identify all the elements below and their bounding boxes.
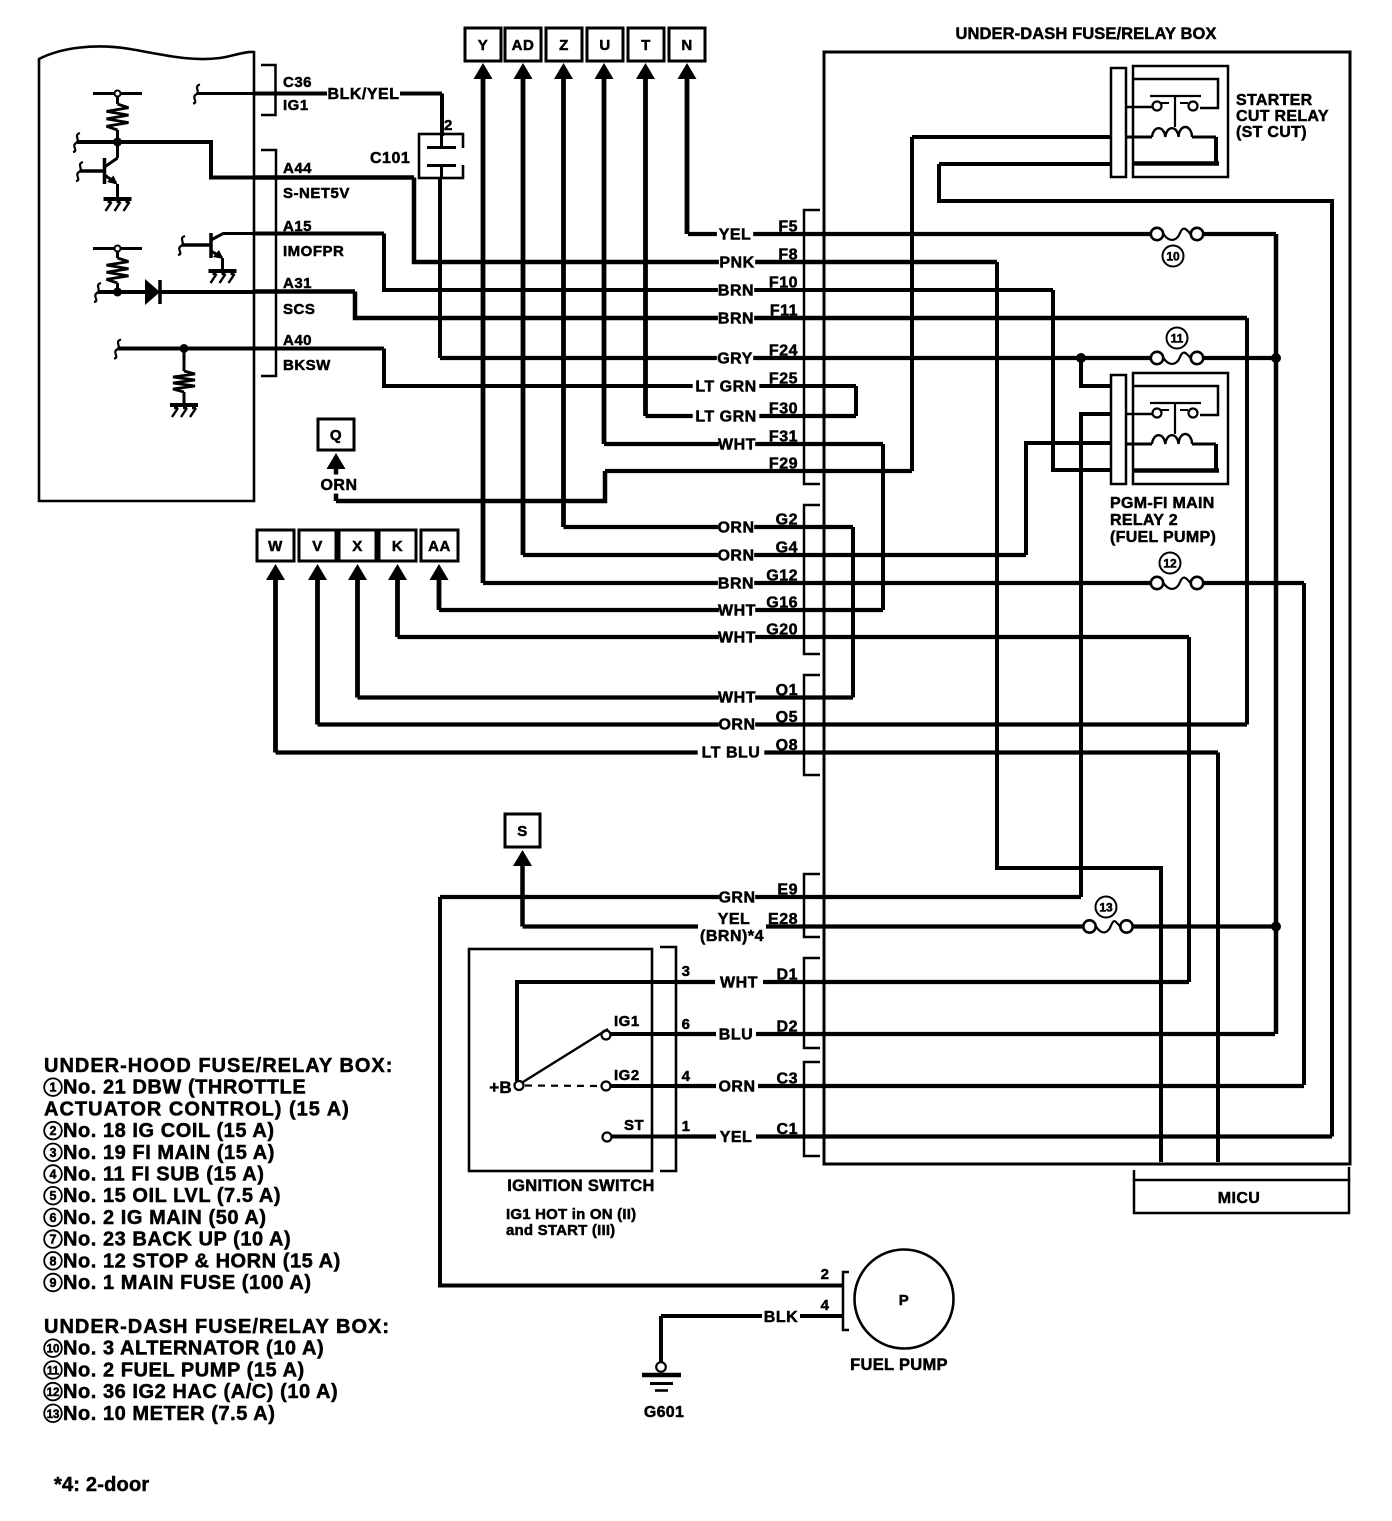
svg-text:UNDER-HOOD FUSE/RELAY BOX:: UNDER-HOOD FUSE/RELAY BOX: bbox=[44, 1055, 393, 1077]
svg-text:No. 36 IG2 HAC (A/C) (10 A): No. 36 IG2 HAC (A/C) (10 A) bbox=[63, 1381, 338, 1403]
wire BLK fuel pump pin 4 to ground bbox=[800, 1314, 843, 1318]
wire riser F29 to relay 1 coil bbox=[910, 137, 914, 471]
wire GRN / E9 row from relay 2 contact to fuel pump feed bbox=[440, 895, 1081, 899]
wire LT GRN / F25 row (from A40/BKSW) bbox=[254, 347, 384, 351]
junction dot fuse 11 tap bbox=[1076, 353, 1086, 363]
wire label ORN (G4) bbox=[718, 545, 754, 564]
svg-text:(ST CUT): (ST CUT) bbox=[1236, 124, 1307, 141]
svg-text:ORN: ORN bbox=[718, 717, 755, 734]
svg-text:ORN: ORN bbox=[717, 548, 754, 565]
fuse 10 (No.3 ALTERNATOR) bbox=[1151, 228, 1163, 240]
svg-text:FUEL PUMP: FUEL PUMP bbox=[850, 1356, 948, 1374]
svg-text:6: 6 bbox=[682, 1016, 691, 1033]
ground (circuit 1 emitter) bbox=[104, 197, 132, 201]
svg-text:ORN: ORN bbox=[718, 1079, 755, 1096]
svg-text:STARTER: STARTER bbox=[1236, 92, 1313, 109]
ground G601 symbol bbox=[642, 1373, 681, 1378]
svg-text:12: 12 bbox=[1163, 557, 1177, 571]
wire F10 run to relay 2 bottom bus bbox=[1053, 290, 1110, 470]
svg-text:No. 10 METER (7.5 A): No. 10 METER (7.5 A) bbox=[63, 1403, 276, 1425]
arrow into connector T bbox=[636, 63, 655, 79]
wire riser to connector U bbox=[602, 75, 607, 444]
junction dot bus/fuse 11 bbox=[1271, 353, 1281, 363]
wire riser to connector T bbox=[643, 75, 648, 416]
svg-text:No. 2 FUEL PUMP (15 A): No. 2 FUEL PUMP (15 A) bbox=[63, 1359, 305, 1381]
svg-text:G16: G16 bbox=[766, 595, 798, 612]
wire WHT / D1 row (ignition +B feed) bbox=[676, 980, 715, 984]
svg-text:No. 2 IG MAIN (50 A): No. 2 IG MAIN (50 A) bbox=[63, 1207, 267, 1229]
svg-text:7: 7 bbox=[50, 1233, 57, 1247]
connector box AA bbox=[421, 530, 458, 561]
svg-text:ORN: ORN bbox=[320, 477, 357, 494]
wire BRN / F11 row (from A31/SCS) bbox=[254, 289, 355, 294]
svg-text:GRN: GRN bbox=[718, 890, 755, 907]
svg-text:12: 12 bbox=[47, 1387, 60, 1399]
jumper G2-Q1 inside box bbox=[851, 527, 855, 698]
svg-text:PGM-FI MAIN: PGM-FI MAIN bbox=[1110, 495, 1215, 512]
svg-text:F31: F31 bbox=[769, 429, 798, 446]
svg-text:S: S bbox=[517, 823, 528, 840]
connector box S bbox=[505, 814, 540, 847]
svg-text:AD: AD bbox=[512, 37, 535, 54]
arrow into connector AA bbox=[430, 564, 449, 580]
node junction dot (circuit 2) bbox=[113, 288, 122, 297]
svg-text:F25: F25 bbox=[769, 371, 798, 388]
wire riser to connector Y bbox=[481, 75, 486, 583]
svg-text:N: N bbox=[681, 37, 692, 54]
wire ORN / C3 row (to IG2) bbox=[676, 1084, 716, 1088]
wire label LT GRN (F30) bbox=[693, 406, 760, 425]
wire label WHT (F31) bbox=[719, 434, 755, 453]
list item 4 bbox=[44, 1165, 62, 1183]
wire BRN / G12 row (from Y) into fuse 12 bbox=[483, 581, 1150, 585]
svg-text:X: X bbox=[352, 538, 363, 555]
svg-text:AA: AA bbox=[428, 538, 451, 555]
svg-text:IG1: IG1 bbox=[614, 1013, 640, 1030]
ground (circuit 2 emitter) bbox=[209, 269, 237, 273]
fuse 13 (No.10 METER) bbox=[1083, 920, 1095, 932]
connector box AD (to another sheet) bbox=[505, 28, 541, 61]
ECM internal terminal circle (circuit 1) bbox=[115, 91, 121, 97]
PGM-FI main relay 2 (fuel pump) bbox=[1111, 375, 1126, 484]
svg-text:C36: C36 bbox=[283, 74, 312, 91]
svg-text:No. 21 DBW (THROTTLE: No. 21 DBW (THROTTLE bbox=[63, 1077, 306, 1099]
list item 1 bbox=[44, 1078, 62, 1096]
wire WHT / G20 row (from K) to D1 bbox=[398, 635, 1190, 639]
wire riser G20 to D1 row bbox=[1187, 637, 1191, 982]
jumper riser Q5-F11 bbox=[1245, 318, 1249, 725]
ignition switch lever (+B to IG1) bbox=[523, 1029, 608, 1082]
arrow into connector U bbox=[595, 63, 614, 79]
svg-text:IG2: IG2 bbox=[614, 1067, 640, 1084]
svg-text:G12: G12 bbox=[766, 568, 798, 585]
wire label BRN (G12) bbox=[718, 573, 754, 592]
svg-text:F29: F29 bbox=[769, 456, 798, 473]
connector box Q bbox=[318, 419, 354, 450]
wire label BRN (F10) bbox=[718, 280, 754, 299]
node junction dot (circuit 1) bbox=[113, 138, 122, 147]
wire WHT / Q1 row (from X) bbox=[358, 695, 854, 699]
svg-text:No. 18 IG COIL (15 A): No. 18 IG COIL (15 A) bbox=[63, 1120, 275, 1142]
wire label LT GRN (F25) bbox=[693, 376, 760, 395]
wire F29 row to starter cut relay coil bbox=[605, 469, 912, 473]
wire riser to connector V bbox=[315, 576, 320, 725]
wire label PNK (F8) bbox=[719, 252, 755, 271]
svg-text:1: 1 bbox=[50, 1081, 57, 1095]
svg-text:K: K bbox=[392, 538, 403, 555]
wire starter relay bus to C1 bbox=[939, 164, 1332, 1137]
svg-text:E9: E9 bbox=[777, 882, 798, 899]
svg-text:13: 13 bbox=[47, 1409, 60, 1421]
svg-text:ST: ST bbox=[624, 1117, 644, 1134]
arrow into connector V bbox=[308, 564, 327, 580]
list item 13 bbox=[44, 1405, 62, 1423]
fuel pump connector bracket bbox=[843, 1272, 849, 1330]
svg-text:PNK: PNK bbox=[719, 255, 754, 272]
connector C101 (inline, pin 2) bbox=[419, 134, 463, 178]
wire YEL (BRN)*4 / E28 row into fuse 13 bbox=[523, 924, 699, 928]
connector bracket E (fuse box) bbox=[804, 874, 820, 937]
wire label BRN (F11) bbox=[718, 308, 754, 327]
wire E9 down-run to fuel pump pin 2 bbox=[440, 897, 843, 1286]
arrow into connector N bbox=[678, 63, 697, 79]
svg-text:6: 6 bbox=[50, 1211, 57, 1225]
svg-text:G2: G2 bbox=[776, 512, 798, 529]
svg-text:BLU: BLU bbox=[719, 1027, 753, 1044]
svg-text:WHT: WHT bbox=[718, 630, 756, 647]
svg-text:BLK/YEL: BLK/YEL bbox=[328, 86, 400, 103]
svg-text:W: W bbox=[268, 538, 283, 555]
list item 12 bbox=[44, 1383, 62, 1401]
connector bracket C (fuse box) bbox=[804, 1062, 820, 1156]
connector box X bbox=[339, 530, 376, 561]
ground (circuit 3) bbox=[170, 403, 198, 407]
svg-text:BRN: BRN bbox=[718, 576, 754, 593]
wire F8 run to MICU (PNK branch) bbox=[997, 262, 1161, 1162]
wire BRN / F10 row (from A15/IMOFPR) bbox=[254, 232, 384, 236]
list item 8 bbox=[44, 1252, 62, 1270]
svg-text:Q5: Q5 bbox=[776, 709, 798, 726]
wire label ORN (Q) bbox=[321, 475, 357, 494]
wire riser to connector W bbox=[273, 576, 278, 753]
svg-text:WHT: WHT bbox=[718, 690, 756, 707]
svg-text:BRN: BRN bbox=[718, 283, 754, 300]
svg-text:YEL: YEL bbox=[718, 911, 751, 928]
svg-text:11: 11 bbox=[1171, 332, 1184, 346]
IG2 terminal bbox=[602, 1082, 611, 1091]
ECM/PCM module box (torn-edge outline) bbox=[39, 46, 254, 501]
svg-text:4: 4 bbox=[682, 1068, 691, 1085]
svg-text:No. 3 ALTERNATOR (10 A): No. 3 ALTERNATOR (10 A) bbox=[63, 1338, 324, 1360]
connector bracket G (fuse box) bbox=[804, 505, 820, 654]
wire label WHT (Q1) bbox=[719, 687, 755, 706]
starter cut relay (ST CUT) bbox=[1111, 68, 1126, 177]
svg-text:A40: A40 bbox=[283, 332, 312, 349]
svg-text:1: 1 bbox=[682, 1118, 691, 1135]
connector box T (to another sheet) bbox=[628, 28, 664, 61]
svg-text:SCS: SCS bbox=[283, 301, 315, 318]
svg-text:ACTUATOR CONTROL) (15 A): ACTUATOR CONTROL) (15 A) bbox=[44, 1098, 350, 1120]
wire label YEL (F5) bbox=[717, 224, 753, 243]
arrow into connector Y bbox=[474, 63, 493, 79]
ground G601 terminal circle bbox=[656, 1362, 666, 1372]
svg-text:F10: F10 bbox=[769, 275, 798, 292]
IGNITION SWITCH box bbox=[469, 949, 652, 1171]
resistor R-b (ECM, circuit 2) bbox=[116, 252, 119, 259]
connector box K bbox=[379, 530, 416, 561]
svg-text:GRY: GRY bbox=[717, 351, 753, 368]
wire riser to connector AA bbox=[437, 576, 442, 610]
wire relay 2 contact drop to E9 bbox=[1081, 414, 1112, 897]
svg-text:A44: A44 bbox=[283, 160, 312, 177]
ST terminal bbox=[603, 1133, 612, 1142]
svg-text:13: 13 bbox=[1099, 901, 1113, 915]
fuse 12 (No.36 IG2 HAC) bbox=[1151, 577, 1163, 589]
svg-text:LT GRN: LT GRN bbox=[695, 409, 756, 426]
connector box Y (to another sheet) bbox=[465, 28, 501, 61]
jumper F25-F30 inside box bbox=[854, 386, 858, 416]
transistor Q-a (ECM driver, circuit 1) bbox=[116, 142, 119, 158]
arrow into connector X bbox=[348, 564, 367, 580]
list item 6 bbox=[44, 1209, 62, 1227]
svg-text:IGNITION SWITCH: IGNITION SWITCH bbox=[507, 1177, 655, 1195]
MICU box bbox=[1133, 1170, 1136, 1180]
wire riser to connector N bbox=[685, 75, 690, 234]
wire BLK/YEL from C36 to connector C101 bbox=[254, 92, 327, 96]
wire riser G4 to relay 2 coil bbox=[1026, 443, 1112, 555]
ignition +B feed wire bbox=[517, 982, 676, 1081]
svg-text:IG1: IG1 bbox=[283, 97, 309, 114]
connector bracket F (fuse box) bbox=[804, 210, 820, 484]
resistor R-a (ECM pull-up, circuit 1) bbox=[116, 97, 119, 105]
svg-text:F11: F11 bbox=[770, 303, 798, 320]
svg-text:G4: G4 bbox=[776, 540, 798, 557]
transistor Q-b (ECM, circuit 2) with collector to pin A15 bbox=[209, 233, 213, 258]
wire label ORN (Q5) bbox=[719, 714, 755, 733]
wire label ORN (G2) bbox=[718, 517, 754, 536]
connector box W bbox=[257, 530, 294, 561]
ECM internal terminal stub (circuit 2) bbox=[93, 247, 142, 250]
list item 2 bbox=[44, 1122, 62, 1140]
junction dot bus/fuse 13 bbox=[1271, 922, 1281, 932]
list item 11 bbox=[44, 1361, 62, 1379]
svg-text:RELAY 2: RELAY 2 bbox=[1110, 512, 1178, 529]
list item 9 bbox=[44, 1274, 62, 1292]
wire riser to connector K bbox=[395, 576, 400, 637]
svg-text:BRN: BRN bbox=[718, 311, 754, 328]
wire riser to connector Z bbox=[561, 75, 566, 527]
connector bracket C36/IG1 bbox=[261, 65, 276, 115]
svg-text:+B: +B bbox=[489, 1078, 512, 1097]
connector box V bbox=[299, 530, 336, 561]
wire BLU / D2 row (to IG1) bbox=[676, 1032, 716, 1036]
svg-text:2: 2 bbox=[444, 117, 453, 134]
wire ORN / G2 row (from Z) bbox=[564, 525, 854, 529]
list item 10 bbox=[44, 1339, 62, 1357]
svg-text:and START (III): and START (III) bbox=[506, 1222, 615, 1239]
svg-text:F24: F24 bbox=[769, 343, 798, 360]
svg-text:F8: F8 bbox=[778, 247, 798, 264]
wire YEL / C1 row (to ST) from starter cut relay bbox=[676, 1134, 716, 1138]
svg-text:2: 2 bbox=[821, 1266, 830, 1283]
svg-text:10: 10 bbox=[47, 1344, 60, 1356]
svg-text:C3: C3 bbox=[777, 1071, 798, 1088]
list item 5 bbox=[44, 1187, 62, 1205]
svg-text:G601: G601 bbox=[644, 1404, 684, 1421]
svg-text:Q1: Q1 bbox=[776, 682, 798, 699]
svg-text:No. 1 MAIN FUSE (100 A): No. 1 MAIN FUSE (100 A) bbox=[63, 1272, 312, 1294]
svg-text:D2: D2 bbox=[777, 1019, 798, 1036]
svg-text:MICU: MICU bbox=[1218, 1190, 1260, 1207]
svg-text:5: 5 bbox=[50, 1189, 57, 1203]
wire A44 internal run to pin A44 bbox=[77, 142, 254, 178]
wire ORN / G4 row (from AD) to relay 2 coil bbox=[523, 553, 1026, 557]
svg-text:LT BLU: LT BLU bbox=[702, 745, 761, 762]
svg-text:(FUEL PUMP): (FUEL PUMP) bbox=[1110, 529, 1216, 546]
svg-text:9: 9 bbox=[50, 1276, 57, 1290]
wire label GRN (E9) bbox=[719, 887, 755, 906]
bus from fuse 10 down to D2 bbox=[1274, 234, 1279, 1034]
svg-text:2: 2 bbox=[50, 1124, 57, 1138]
svg-text:(BRN)*4: (BRN)*4 bbox=[700, 928, 764, 945]
svg-text:10: 10 bbox=[1166, 250, 1180, 264]
svg-text:No. 11 FI SUB (15 A): No. 11 FI SUB (15 A) bbox=[63, 1164, 264, 1186]
wire fuse 12 to C3 (ORN) bbox=[1302, 583, 1306, 1085]
svg-text:IMOFPR: IMOFPR bbox=[283, 243, 344, 260]
svg-text:3: 3 bbox=[682, 963, 691, 980]
connector bracket Q (fuse box) bbox=[804, 675, 820, 775]
svg-text:4: 4 bbox=[821, 1297, 830, 1314]
wire riser Q8 down to MICU bbox=[1216, 753, 1220, 1163]
+B terminal bbox=[515, 1081, 524, 1090]
svg-text:P: P bbox=[899, 1292, 910, 1309]
connector bracket A (A44/A15/A31/A40) bbox=[261, 150, 276, 376]
wire WHT / F31 row (from U) bbox=[604, 442, 883, 446]
arrow into connector AD bbox=[514, 63, 533, 79]
UNDER-DASH FUSE/RELAY BOX outline bbox=[824, 52, 1350, 1164]
svg-text:*4: 2-door: *4: 2-door bbox=[54, 1474, 149, 1496]
svg-text:IG1 HOT in ON (II): IG1 HOT in ON (II) bbox=[506, 1206, 636, 1223]
svg-text:U: U bbox=[599, 37, 610, 54]
svg-text:WHT: WHT bbox=[718, 437, 756, 454]
svg-text:No. 15 OIL LVL (7.5 A): No. 15 OIL LVL (7.5 A) bbox=[63, 1185, 281, 1207]
resistor R-c (ECM pull-down, circuit 3) bbox=[183, 349, 186, 372]
ECM internal terminal circle (circuit 2) bbox=[115, 246, 121, 252]
svg-text:No. 12 STOP & HORN (15 A): No. 12 STOP & HORN (15 A) bbox=[63, 1250, 341, 1272]
wire YEL / F5 row into fuse 10 bbox=[688, 232, 1150, 236]
wire label LT BLU (Q8) bbox=[698, 742, 765, 761]
wire WHT / G16 row (from AA) bbox=[439, 608, 883, 612]
arrow into connector K bbox=[388, 564, 407, 580]
svg-text:C1: C1 bbox=[777, 1121, 798, 1138]
arrow into connector W bbox=[266, 564, 285, 580]
wire ORN / Q5 row (from V) jumpered to F11 bbox=[318, 722, 1248, 726]
wire PNK / F8 row (from A44/S-NET5V) bbox=[254, 175, 414, 180]
connector box Z (to another sheet) bbox=[546, 28, 582, 61]
ECM internal stub to pin C36 bbox=[197, 92, 254, 95]
wire label GRY (F24) bbox=[717, 348, 753, 367]
svg-text:WHT: WHT bbox=[720, 975, 758, 992]
wire A40 internal run with pull-down bbox=[118, 347, 254, 351]
svg-text:E28: E28 bbox=[768, 911, 798, 928]
wire tap to PGM-FI relay 2 bus bbox=[1081, 358, 1112, 386]
ignition switch dashed throw (+B to IG2) bbox=[525, 1084, 600, 1087]
svg-text:G20: G20 bbox=[766, 622, 798, 639]
node junction dot (circuit 3) bbox=[180, 344, 189, 353]
svg-text:D1: D1 bbox=[777, 967, 798, 984]
svg-text:BLK: BLK bbox=[764, 1309, 798, 1326]
svg-text:No. 23 BACK UP (10 A): No. 23 BACK UP (10 A) bbox=[63, 1229, 291, 1251]
fuel pump motor (P) bbox=[855, 1250, 954, 1349]
svg-text:11: 11 bbox=[47, 1365, 60, 1377]
svg-text:F30: F30 bbox=[769, 401, 798, 418]
arrow into connector Q bbox=[327, 453, 346, 469]
svg-text:YEL: YEL bbox=[720, 1129, 753, 1146]
wire label WHT (G20) bbox=[719, 627, 755, 646]
svg-text:UNDER-DASH FUSE/RELAY BOX:: UNDER-DASH FUSE/RELAY BOX: bbox=[44, 1316, 390, 1338]
svg-text:Z: Z bbox=[559, 37, 569, 54]
svg-text:C101: C101 bbox=[370, 150, 410, 167]
connector bracket D (fuse box) bbox=[804, 958, 820, 1048]
connector box N (to another sheet) bbox=[669, 28, 705, 61]
jumper F31-G16 inside box bbox=[881, 444, 885, 610]
svg-text:Q: Q bbox=[330, 427, 342, 444]
arrow into connector S bbox=[513, 850, 532, 866]
svg-text:ORN: ORN bbox=[717, 520, 754, 537]
wire riser to connector AD bbox=[521, 75, 526, 555]
wire riser to connector X bbox=[355, 576, 360, 698]
svg-text:V: V bbox=[312, 538, 323, 555]
svg-text:Q8: Q8 bbox=[776, 737, 798, 754]
wire C101 to F24 (GRY) bbox=[438, 178, 442, 358]
svg-text:No. 19 FI MAIN (15 A): No. 19 FI MAIN (15 A) bbox=[63, 1142, 275, 1164]
IG1 terminal bbox=[602, 1031, 611, 1040]
svg-text:Y: Y bbox=[478, 37, 489, 54]
svg-text:8: 8 bbox=[50, 1254, 57, 1268]
svg-text:F5: F5 bbox=[778, 219, 798, 236]
wire LT BLU / Q8 row (from W) to MICU bbox=[276, 750, 1219, 754]
svg-text:4: 4 bbox=[50, 1168, 57, 1182]
svg-text:T: T bbox=[641, 37, 651, 54]
fuse 11 (No.2 FUEL PUMP) bbox=[1151, 352, 1163, 364]
wire LT GRN / F30 row (from T) bbox=[646, 414, 857, 418]
ignition switch connector bracket bbox=[660, 947, 676, 1171]
diode D-a with wire to pin A31 bbox=[98, 290, 145, 294]
svg-text:LT GRN: LT GRN bbox=[695, 379, 756, 396]
wire ORN from F29 loop to Q bbox=[334, 465, 339, 501]
svg-text:YEL: YEL bbox=[719, 227, 752, 244]
wire GRY / F24 row (from C101) into fuse 11 bbox=[440, 356, 1150, 360]
wire riser to connector S (from E28) bbox=[520, 862, 525, 927]
list item 7 bbox=[44, 1230, 62, 1248]
list item 3 bbox=[44, 1144, 62, 1162]
svg-text:UNDER-DASH FUSE/RELAY BOX: UNDER-DASH FUSE/RELAY BOX bbox=[955, 25, 1216, 43]
arrow into connector Z bbox=[554, 63, 573, 79]
svg-text:S-NET5V: S-NET5V bbox=[283, 185, 350, 202]
svg-text:CUT RELAY: CUT RELAY bbox=[1236, 108, 1329, 125]
ECM internal terminal stub (circuit 1) bbox=[93, 92, 142, 95]
connector box U (to another sheet) bbox=[587, 28, 623, 61]
wire label WHT (G16) bbox=[719, 600, 755, 619]
svg-text:3: 3 bbox=[50, 1146, 57, 1160]
svg-text:WHT: WHT bbox=[718, 603, 756, 620]
svg-text:BKSW: BKSW bbox=[283, 357, 331, 374]
